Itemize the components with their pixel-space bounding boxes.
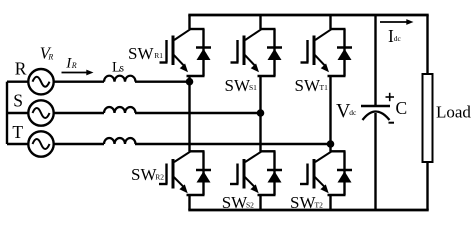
- label S: [13, 91, 23, 111]
- transistor SWS2 (IGBT): [230, 152, 261, 194]
- label SWS1: [225, 76, 258, 95]
- diode D_T1 (antiparallel with SWT1): [337, 29, 352, 76]
- node R (phase junction): [186, 78, 194, 86]
- label C: [396, 98, 408, 118]
- wire: phase S from source to inductor: [54, 112, 104, 114]
- wire: lower leg to -rail: [258, 195, 276, 210]
- wire: phase R from source to inductor: [54, 80, 104, 82]
- label Ls: [112, 60, 125, 76]
- label V_R: [40, 44, 54, 63]
- AC source R: [28, 69, 53, 94]
- diode D_R2 (antiparallel with SWR2): [196, 151, 211, 195]
- diode D_S2 (antiparallel with SWS2): [267, 151, 282, 195]
- svg-text:S2: S2: [246, 200, 254, 209]
- node T (phase junction): [327, 140, 335, 148]
- label R: [15, 59, 27, 79]
- wire: leg emitter to phase node: [187, 76, 205, 82]
- wire: phase T stub from bus to source: [7, 143, 29, 145]
- wire: phase R stub from bus to source: [7, 80, 29, 82]
- AC source T: [28, 131, 53, 156]
- label I_R with current arrow: [62, 55, 94, 75]
- wire: phase S stub from bus to source: [7, 112, 29, 114]
- svg-text:R: R: [15, 59, 27, 79]
- label SWS2: [222, 193, 254, 212]
- diode D_R1 (antiparallel with SWR1): [196, 29, 211, 76]
- wire: capacitor branch lower: [374, 113, 376, 210]
- svg-text:S: S: [13, 91, 23, 111]
- svg-text:T2: T2: [315, 200, 324, 209]
- svg-text:SW: SW: [290, 193, 316, 212]
- svg-text:SW: SW: [128, 44, 154, 63]
- wire: positive DC rail (top): [188, 14, 428, 17]
- transistor SWR1 (IGBT): [160, 29, 191, 72]
- AC source S: [28, 100, 53, 125]
- svg-text:S1: S1: [249, 83, 257, 92]
- svg-text:R1: R1: [154, 51, 163, 60]
- inductor Ls (R phase): [104, 76, 136, 82]
- wire: leg midpoint down to lower IGBT: [260, 113, 276, 151]
- svg-text:SW: SW: [131, 165, 157, 184]
- wire: phase R from inductor to bridge leg: [135, 80, 190, 82]
- label SWT1: [295, 76, 329, 95]
- label + (capacitor polarity): [386, 93, 395, 101]
- transistor SWS1 (IGBT): [231, 29, 262, 72]
- node S (phase junction): [257, 109, 265, 117]
- wire: load branch upper: [426, 15, 428, 74]
- wire: lower leg to -rail: [328, 195, 346, 210]
- inductor Ls (T phase): [104, 138, 136, 144]
- diode D_S1 (antiparallel with SWS1): [267, 29, 282, 76]
- label I_dc with current arrow: [380, 19, 414, 46]
- svg-text:R2: R2: [155, 172, 164, 181]
- wire: leg midpoint down to lower IGBT: [330, 144, 346, 151]
- svg-text:SW: SW: [222, 193, 248, 212]
- svg-text:C: C: [396, 98, 408, 118]
- svg-text:T: T: [12, 122, 23, 142]
- wire: negative DC rail (bottom): [188, 209, 428, 212]
- svg-text:Load: Load: [436, 103, 471, 122]
- inductor Ls (S phase): [104, 107, 136, 113]
- wire: leg midpoint down to lower IGBT: [189, 82, 205, 152]
- svg-text:dc: dc: [349, 108, 357, 117]
- wire: phase S from inductor to bridge leg: [135, 112, 261, 114]
- label Load: [436, 103, 471, 122]
- svg-text:SW: SW: [295, 76, 321, 95]
- label SWR1: [128, 44, 163, 63]
- svg-text:T1: T1: [320, 83, 329, 92]
- wire: load branch lower: [426, 162, 428, 210]
- wire: leg collector from +rail: [189, 15, 205, 29]
- diode D_T2 (antiparallel with SWT2): [337, 151, 352, 195]
- transistor SWT1 (IGBT): [301, 29, 332, 72]
- wire: phase T from source to inductor: [54, 143, 104, 145]
- wire: lower leg to -rail: [187, 195, 205, 210]
- label SWT2: [290, 193, 323, 212]
- wire: phase T from inductor to bridge leg: [135, 143, 331, 145]
- svg-text:s: s: [120, 63, 125, 75]
- svg-text:R: R: [47, 53, 53, 62]
- label V_dc: [336, 100, 357, 122]
- svg-text:SW: SW: [225, 76, 251, 95]
- svg-text:R: R: [71, 61, 77, 70]
- transistor SWT2 (IGBT): [300, 152, 331, 194]
- wire: leg collector from +rail: [330, 15, 346, 29]
- wire: leg collector from +rail: [260, 15, 276, 29]
- transistor SWR2 (IGBT): [159, 152, 190, 194]
- resistor Load (box): [423, 74, 433, 162]
- label T: [12, 122, 23, 142]
- capacitor C (polarized): [361, 106, 390, 120]
- wire: capacitor branch upper: [374, 15, 376, 106]
- wire: leg emitter to phase node: [328, 76, 346, 144]
- label - (capacitor polarity): [389, 122, 395, 124]
- wire: left neutral bus: [6, 82, 8, 144]
- svg-text:dc: dc: [394, 34, 402, 43]
- wire: leg emitter to phase node: [258, 76, 276, 113]
- label SWR2: [131, 165, 164, 184]
